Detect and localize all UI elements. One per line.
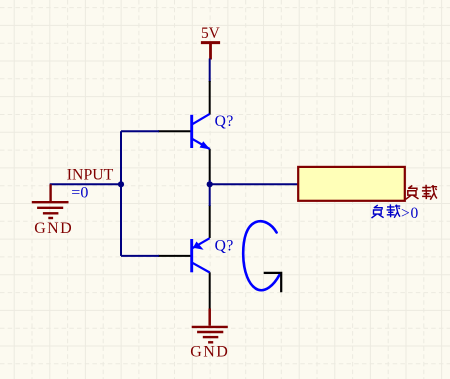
svg-text:Q?: Q? — [215, 113, 234, 130]
Q1 collector stroke — [192, 114, 210, 125]
svg-text:GND: GND — [190, 344, 229, 361]
wire Q2 base — [121, 255, 159, 257]
svg-text:>0: >0 — [401, 205, 419, 222]
power port GND left — [32, 184, 73, 237]
junction INPUT node — [118, 181, 124, 187]
Q2 emitter arrow — [193, 242, 204, 250]
svg-text:5V: 5V — [201, 25, 220, 42]
Q2 emitter stroke — [192, 238, 210, 248]
Q2 base bar — [190, 239, 193, 272]
Q1 base bar — [190, 115, 193, 148]
hand-drawn rotation arc — [243, 221, 279, 290]
wire left vertical — [120, 131, 122, 256]
wire Q1 base — [121, 130, 159, 132]
power port 5V — [201, 25, 220, 59]
Q2 collector pin — [209, 272, 211, 309]
svg-text:INPUT: INPUT — [67, 166, 114, 183]
wire output vertical — [209, 180, 211, 206]
transistor Q2 (PNP bottom) — [158, 205, 234, 310]
wire output to load — [210, 183, 299, 185]
load rectangle — [298, 167, 405, 201]
wire 5V to Q1 — [209, 59, 211, 83]
svg-text:=0: =0 — [71, 185, 88, 202]
transistor Q1 (NPN top) — [158, 81, 234, 181]
Q1 emitter pin — [209, 149, 211, 181]
Q1 emitter arrow — [200, 141, 211, 149]
Q1 emitter stroke — [192, 139, 210, 149]
Q2 emitter pin — [209, 205, 211, 238]
Q2 base pin — [158, 255, 192, 257]
svg-text:Q?: Q? — [215, 238, 234, 255]
svg-text:GND: GND — [34, 220, 73, 237]
Q1 collector pin — [209, 81, 211, 115]
Q1 base pin — [158, 130, 192, 132]
wire INPUT horizontal — [50, 183, 121, 185]
junction output node — [207, 181, 213, 187]
power port GND bottom — [190, 309, 229, 361]
annotation 负载>0 — [372, 204, 420, 222]
Q2 collector stroke — [192, 262, 210, 272]
label 负载 (load name) — [406, 185, 437, 200]
rotation arrow head — [264, 273, 282, 292]
